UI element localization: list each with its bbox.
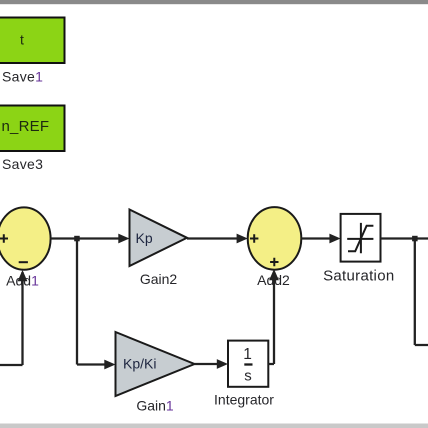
svg-text:t: t <box>20 32 24 48</box>
svg-text:n_REF: n_REF <box>2 118 50 135</box>
svg-text:Gain1: Gain1 <box>136 398 174 414</box>
svg-text:Integrator: Integrator <box>214 392 274 408</box>
svg-text:Save1: Save1 <box>2 69 43 85</box>
svg-text:Gain2: Gain2 <box>140 271 178 287</box>
svg-text:Kp: Kp <box>136 230 153 246</box>
svg-text:1: 1 <box>243 346 252 363</box>
svg-text:s: s <box>244 368 252 385</box>
svg-text:Save3: Save3 <box>2 156 43 172</box>
svg-text:Saturation: Saturation <box>323 268 394 285</box>
svg-text:Kp/Ki: Kp/Ki <box>123 356 156 372</box>
